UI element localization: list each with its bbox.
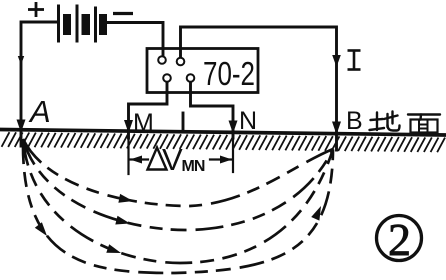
svg-text:M: M <box>133 109 154 137</box>
svg-text:B: B <box>346 107 363 135</box>
svg-text:N: N <box>239 107 257 135</box>
svg-text:V: V <box>162 142 183 177</box>
svg-text:A: A <box>28 94 51 129</box>
svg-text:MN: MN <box>182 158 205 175</box>
svg-text:2: 2 <box>388 214 411 265</box>
svg-text:70-2: 70-2 <box>203 55 255 92</box>
